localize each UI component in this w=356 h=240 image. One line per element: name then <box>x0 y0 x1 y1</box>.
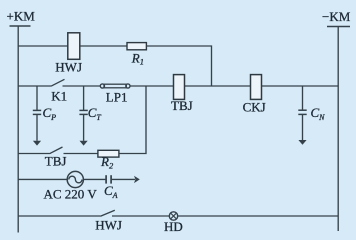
svg-text:+KM: +KM <box>7 8 36 23</box>
svg-text:HWJ: HWJ <box>55 59 82 74</box>
svg-text:−KM: −KM <box>322 9 351 24</box>
node +KM terminal bar <box>10 25 31 27</box>
wire row5 to lamp <box>112 215 169 217</box>
wire row2 CKJ to right bus <box>262 85 339 87</box>
relay coil HWJ <box>68 33 80 60</box>
wire row4 source to CA <box>83 178 106 180</box>
fuse LP1 <box>100 84 104 88</box>
wire row4 bus to source <box>18 178 67 180</box>
switch HWJ <box>100 210 114 216</box>
lamp HD <box>169 212 177 220</box>
svg-text:HWJ: HWJ <box>95 217 122 232</box>
wire row1 left <box>18 45 68 47</box>
wire row3 to R2 <box>64 153 98 155</box>
wire row5 lamp to right bus <box>178 215 339 217</box>
svg-text:CKJ: CKJ <box>243 100 266 115</box>
capacitor CP <box>33 86 41 146</box>
switch K1 <box>51 79 65 86</box>
relay coil CKJ <box>251 75 262 100</box>
wire right bus <box>337 27 339 232</box>
svg-text:TBJ: TBJ <box>171 98 193 113</box>
AC source <box>67 171 83 187</box>
capacitor CA <box>105 175 107 183</box>
svg-text:TBJ: TBJ <box>45 154 67 169</box>
wire row2 LP1 to TBJ <box>130 85 174 87</box>
wire row4 arrow <box>112 178 135 180</box>
capacitor CT <box>79 86 87 146</box>
resistor R1 <box>127 43 146 50</box>
node -KM terminal bar <box>327 26 350 28</box>
wire row2 K1 to LP1 <box>63 85 101 87</box>
wire left bus <box>17 26 19 233</box>
svg-text:HD: HD <box>164 219 183 234</box>
wire row2 TBJ to CKJ <box>185 85 251 87</box>
wire row5 bus to HWJ switch <box>18 215 100 217</box>
wire row2 bus to K1 <box>18 85 51 87</box>
svg-text:LP1: LP1 <box>106 89 128 104</box>
resistor R2 <box>98 150 119 157</box>
relay coil TBJ <box>174 75 185 100</box>
wire row1 right <box>146 46 211 86</box>
svg-text:AC 220 V: AC 220 V <box>44 187 98 202</box>
wire row3 bus to TBJ switch <box>18 153 49 155</box>
capacitor CN <box>298 86 306 145</box>
switch TBJ <box>50 147 63 154</box>
wire row3 R2 to corner up <box>119 86 146 154</box>
svg-text:K1: K1 <box>51 89 67 104</box>
wire row1 mid <box>80 45 127 47</box>
